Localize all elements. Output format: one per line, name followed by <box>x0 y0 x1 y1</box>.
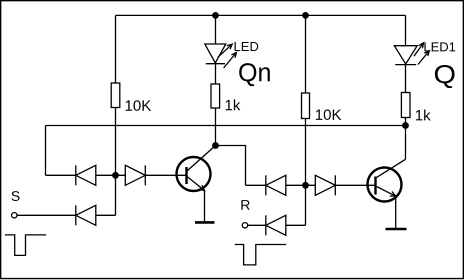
svg-text:Qn: Qn <box>238 57 272 87</box>
svg-text:1k: 1k <box>225 97 241 114</box>
svg-text:1k: 1k <box>415 107 431 124</box>
svg-text:LED: LED <box>234 39 259 54</box>
svg-text:Q: Q <box>434 59 457 89</box>
svg-text:10K: 10K <box>125 98 152 115</box>
svg-text:LED1: LED1 <box>423 39 456 54</box>
svg-text:S: S <box>11 188 20 204</box>
svg-text:R: R <box>240 197 250 213</box>
svg-text:10K: 10K <box>315 107 342 124</box>
